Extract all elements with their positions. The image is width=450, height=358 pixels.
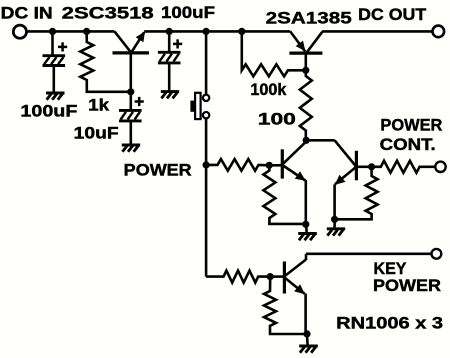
node C3 top junction — [166, 28, 173, 35]
svg-text:100k: 100k — [250, 80, 287, 99]
svg-text:100: 100 — [258, 110, 296, 129]
resistor R7 power cont — [372, 161, 435, 173]
node switch top junction — [203, 28, 210, 35]
label RN1006 x 3 — [336, 313, 443, 332]
svg-text:RN1006 x 3: RN1006 x 3 — [336, 313, 443, 332]
capacitor C1 100uF — [43, 31, 68, 92]
node C1 top junction — [49, 28, 56, 35]
label CONT. — [380, 135, 436, 154]
wire top rail middle segment — [144, 30, 290, 33]
terminal DC IN — [13, 25, 26, 38]
ground Q3 emitter — [298, 224, 317, 240]
svg-text:DC IN: DC IN — [1, 4, 53, 23]
node POWER line junction — [203, 161, 210, 168]
transistor Q5 — [270, 254, 306, 334]
svg-text:POWER: POWER — [373, 276, 441, 295]
node Q4 emitter junction — [331, 216, 338, 223]
resistor R5 base-emitter — [263, 165, 305, 224]
svg-text:DC OUT: DC OUT — [358, 5, 427, 24]
label 100k — [250, 80, 287, 99]
transistor Q2 2SA1385 — [289, 31, 322, 70]
wire key collector — [306, 253, 431, 256]
label 2SA1385 — [266, 9, 352, 28]
label 1k — [88, 96, 110, 115]
label 100uF top — [161, 3, 215, 22]
node base junction Q1 — [127, 88, 134, 95]
capacitor C3 100uF — [158, 31, 182, 91]
svg-text:2SA1385: 2SA1385 — [266, 9, 352, 28]
node Q5 base junction — [267, 273, 274, 280]
terminal POWER CONT — [435, 162, 445, 172]
node R1 top junction — [83, 28, 90, 35]
wire collector bridge — [306, 139, 334, 142]
label KEY — [374, 259, 408, 278]
node Q4 base junction — [368, 163, 375, 170]
svg-text:POWER: POWER — [380, 116, 442, 135]
label POWER right — [380, 116, 442, 135]
transistor Q3 — [269, 141, 306, 224]
node Q2 base junction — [302, 67, 309, 74]
resistor R3 100 — [300, 70, 312, 140]
label POWER bottom — [373, 276, 441, 295]
resistor R9 key base-emitter — [264, 277, 306, 334]
label 100 — [258, 110, 296, 129]
resistor R1 1k — [80, 31, 131, 91]
transistor Q4 — [335, 140, 372, 219]
transistor Q1 2SC3518 — [113, 31, 150, 91]
label DC OUT — [358, 5, 427, 24]
node R2 top junction — [238, 28, 245, 35]
svg-text:1k: 1k — [88, 96, 110, 115]
svg-text:CONT.: CONT. — [380, 135, 436, 154]
svg-text:100uF: 100uF — [20, 101, 77, 120]
node Q5 emitter junction — [303, 330, 310, 337]
label 100uF left — [20, 101, 77, 120]
wire top rail left segment — [27, 30, 115, 33]
resistor R8 key base — [206, 271, 270, 283]
ground Q5 emitter — [299, 334, 318, 353]
terminal KEY POWER — [432, 249, 442, 259]
label 10uF — [74, 124, 119, 143]
svg-text:10uF: 10uF — [74, 124, 119, 143]
label 2SC3518 — [62, 4, 154, 23]
svg-text:POWER: POWER — [124, 161, 192, 180]
switch POWER pushbutton — [190, 31, 209, 276]
node Q3 base junction — [266, 162, 273, 169]
node Q3 emitter junction — [302, 221, 309, 228]
svg-text:100uF: 100uF — [161, 3, 215, 22]
ground C3 — [161, 92, 179, 99]
ground C1 — [46, 93, 65, 100]
resistor R2 100k — [242, 31, 306, 76]
label DC IN — [1, 4, 53, 23]
ground Q4 emitter — [327, 219, 345, 235]
label POWER switch — [124, 161, 192, 180]
capacitor C2 10uF — [119, 92, 144, 145]
ground C2 — [122, 145, 140, 152]
wire top rail right segment — [322, 30, 432, 33]
resistor R4 base — [206, 159, 269, 171]
node collector bridge junction — [303, 137, 310, 144]
terminal DC OUT — [433, 26, 445, 38]
resistor R6 base-emitter — [335, 167, 378, 220]
svg-text:2SC3518: 2SC3518 — [62, 4, 154, 23]
